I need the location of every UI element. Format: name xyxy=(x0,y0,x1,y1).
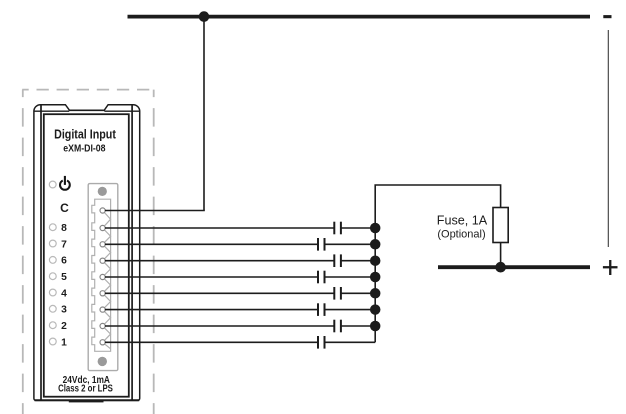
svg-text:Digital Input: Digital Input xyxy=(54,127,116,142)
input LED 1 xyxy=(49,338,56,345)
svg-text:8: 8 xyxy=(61,223,67,234)
status LED (power row) xyxy=(49,181,56,188)
label + (positive terminal) xyxy=(603,260,618,275)
svg-text:4: 4 xyxy=(61,288,67,299)
connector spring contact zigzag xyxy=(103,211,111,349)
wire: input 3 right segment xyxy=(325,309,376,311)
wire: terminal C to common riser xyxy=(105,210,205,212)
connector pin 6 xyxy=(100,258,105,263)
junction: common wire on negative bus xyxy=(199,11,210,22)
input LED 3 xyxy=(49,305,56,312)
junction: input 4 on contact bus xyxy=(370,288,381,299)
dry contact, input 7 xyxy=(318,238,325,251)
svg-text:Class 2 or LPS: Class 2 or LPS xyxy=(58,383,113,394)
dry contact, input 1 xyxy=(318,336,325,349)
module top cap seam line xyxy=(34,110,139,112)
label - (negative terminal) xyxy=(603,15,611,18)
junction: input 3 on contact bus xyxy=(370,304,381,315)
svg-text:7: 7 xyxy=(61,239,67,250)
svg-text:6: 6 xyxy=(61,256,67,267)
input LED 7 xyxy=(49,240,56,247)
wire: input 1 left segment xyxy=(105,341,318,343)
connector pin 7 xyxy=(100,242,105,247)
svg-text:eXM-DI-08: eXM-DI-08 xyxy=(63,144,106,155)
junction: input 8 on contact bus xyxy=(370,223,381,234)
wire: fuse to positive bus xyxy=(500,243,502,268)
terminal connector block housing xyxy=(88,184,118,371)
wire: input 2 right segment xyxy=(341,325,375,327)
svg-text:2: 2 xyxy=(61,321,67,332)
junction: input 2 on contact bus xyxy=(370,321,381,332)
input LED 2 xyxy=(49,322,56,329)
module body side edge lines xyxy=(41,105,132,400)
junction: fuse on positive bus xyxy=(495,262,506,273)
svg-text:5: 5 xyxy=(61,272,67,283)
contact bus vertical wire xyxy=(375,185,500,342)
connector mounting hole (top) xyxy=(98,187,107,196)
wire: input 8 right segment xyxy=(341,227,375,229)
dry contact, input 8 xyxy=(334,222,341,235)
connector mounting hole (bottom) xyxy=(98,357,107,366)
input LED 5 xyxy=(49,273,56,280)
module front panel xyxy=(44,114,129,397)
connector pin 3 xyxy=(100,307,105,312)
positive supply bus (+) xyxy=(438,265,590,269)
wire: input 5 right segment xyxy=(325,276,376,278)
negative supply bus (-) xyxy=(128,15,591,19)
module bottom edge (thick) xyxy=(35,399,140,401)
svg-text:1: 1 xyxy=(61,337,67,348)
enclosure outline (dashed) xyxy=(22,90,154,414)
input LED 6 xyxy=(49,257,56,264)
wire: input 1 right segment xyxy=(325,341,376,343)
wire: input 7 right segment xyxy=(325,243,376,245)
wire: input 6 left segment xyxy=(105,260,334,262)
DIN rail clip (bottom) xyxy=(69,400,104,403)
wire: input 6 right segment xyxy=(341,260,375,262)
wire: input 2 left segment xyxy=(105,325,334,327)
connector pin 2 xyxy=(100,323,105,328)
supply source line (right side) xyxy=(607,30,609,247)
wire: input 7 left segment xyxy=(105,243,318,245)
junction: input 6 on contact bus xyxy=(370,255,381,266)
dry contact, input 2 xyxy=(334,320,341,333)
wire: input 3 left segment xyxy=(105,309,318,311)
svg-text:(Optional): (Optional) xyxy=(437,229,485,241)
wire: input 5 left segment xyxy=(105,276,318,278)
junction: input 5 on contact bus xyxy=(370,272,381,283)
svg-text:3: 3 xyxy=(61,305,67,316)
wire: negative bus down to terminal C level xyxy=(203,17,205,211)
wire: input 8 left segment xyxy=(105,227,334,229)
dry contact, input 3 xyxy=(318,303,325,316)
module top notch bottom line xyxy=(69,109,105,111)
dry contact, input 6 xyxy=(334,254,341,267)
svg-text:Fuse, 1A: Fuse, 1A xyxy=(437,214,488,228)
connector pin 4 xyxy=(100,291,105,296)
connector pin 5 xyxy=(100,274,105,279)
wire: input 4 left segment xyxy=(105,292,334,294)
input LED 4 xyxy=(49,289,56,296)
dry contact, input 4 xyxy=(334,287,341,300)
power standby symbol xyxy=(60,176,70,190)
connector pin 8 xyxy=(100,225,105,230)
module eXM-DI-08 body outline xyxy=(34,105,140,401)
dry contact, input 5 xyxy=(318,271,325,284)
input LED 8 xyxy=(49,224,56,231)
connector pin 1 xyxy=(100,340,105,345)
fuse F1 body xyxy=(493,208,508,243)
connector terminal strip body xyxy=(92,199,111,351)
svg-text:C: C xyxy=(60,201,69,215)
connector pin C xyxy=(100,208,105,213)
wire: input 4 right segment xyxy=(341,292,375,294)
junction: input 7 on contact bus xyxy=(370,239,381,250)
